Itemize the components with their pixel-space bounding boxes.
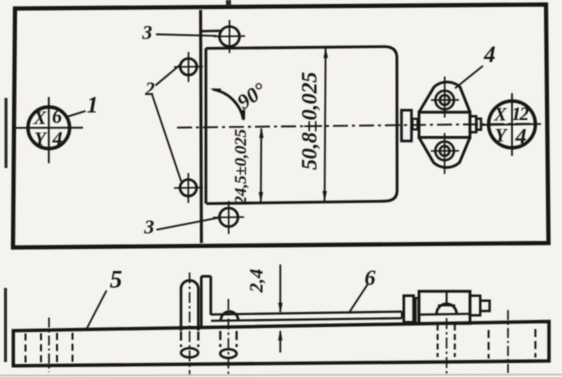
screw foot [220, 349, 236, 358]
plate item 6 top line [211, 312, 402, 315]
pin centerline [189, 273, 191, 375]
device body left edge [204, 48, 207, 203]
hole 2 top [174, 52, 203, 82]
clamp screw top [431, 77, 459, 118]
svg-text:3: 3 [141, 22, 152, 44]
leader 2 upper [155, 65, 180, 86]
dimension 50,8 line [325, 48, 326, 201]
leader 3 bottom [157, 217, 221, 230]
leader 6 [349, 285, 368, 314]
clamp screw centerline [446, 318, 448, 375]
leader 4 [455, 66, 483, 89]
clamp right stub [470, 116, 476, 132]
dimension 24,5 line [260, 129, 263, 203]
base plate side view [13, 322, 549, 366]
coordinate stamp circle left (X6 Y4) [28, 107, 70, 149]
svg-text:X: X [493, 105, 508, 126]
leader 5 [86, 291, 107, 331]
right hidden hole dashed walls [489, 329, 536, 359]
svg-text:6: 6 [52, 106, 62, 128]
pin foot [181, 348, 198, 357]
screw centerline [227, 299, 229, 376]
dim 2,4 arrows [279, 265, 281, 313]
clamp body (item 4) [419, 112, 470, 137]
svg-text:24,5±0,025: 24,5±0,025 [231, 128, 250, 205]
svg-text:2: 2 [144, 79, 155, 100]
clamp side thin bar [416, 298, 419, 323]
right hole centerline [507, 310, 509, 373]
90 degree arc [213, 89, 243, 119]
left hidden hole dashed walls [26, 333, 73, 363]
svg-text:X: X [33, 108, 48, 129]
pin cylinder (item 2 side) [181, 280, 198, 330]
svg-text:1: 1 [87, 93, 99, 118]
plate item 6 bottom line [211, 318, 402, 321]
clamp side right stubs [470, 296, 480, 316]
clamp top cap [419, 82, 470, 112]
screw dome side [221, 312, 238, 321]
svg-text:4: 4 [483, 42, 496, 67]
clamp side screw dome [437, 304, 457, 314]
shaft boss [402, 110, 412, 141]
hole 3 top [214, 20, 245, 53]
coordinate stamp circle right (X12 Y4) [489, 101, 536, 148]
leader 1 [68, 111, 86, 117]
clamp left step [412, 119, 417, 130]
hole 3 bottom [213, 201, 244, 234]
svg-text:12: 12 [512, 104, 530, 125]
device body outline [206, 47, 397, 204]
svg-text:4: 4 [52, 128, 63, 150]
svg-text:3: 3 [143, 217, 154, 239]
clamp screw bottom [431, 133, 459, 174]
bracket vertical plate edge [199, 10, 203, 243]
svg-text:5: 5 [110, 267, 123, 294]
svg-text:50,8±0,025: 50,8±0,025 [297, 72, 322, 170]
base plate outline (top view) [13, 5, 549, 248]
hole 2 bottom [174, 173, 203, 203]
plate item 6 right end [401, 312, 403, 319]
main horizontal centerline [177, 124, 541, 128]
scan artifacts [5, 98, 8, 168]
svg-text:2,4: 2,4 [247, 269, 268, 294]
svg-text:6: 6 [365, 265, 376, 290]
clamp side main block [419, 291, 470, 323]
svg-text:4: 4 [515, 124, 527, 149]
left hole centerline [48, 318, 50, 373]
leader 2 lower [152, 95, 181, 181]
leader 3 top [156, 34, 217, 36]
L-bracket side view [201, 276, 211, 327]
clamp hidden screw lines [438, 325, 455, 358]
clamp side view boss [404, 296, 414, 323]
bracket top tab step [201, 30, 221, 33]
clamp bottom cap [419, 137, 470, 167]
